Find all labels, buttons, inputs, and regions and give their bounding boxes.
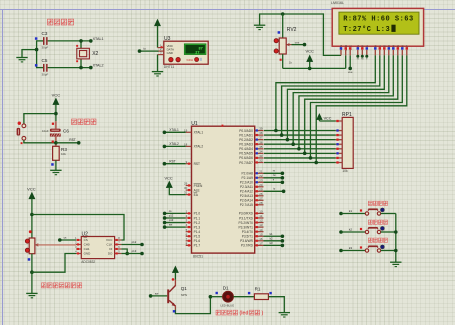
svg-text:PSEN: PSEN <box>194 184 203 188</box>
svg-text:24: 24 <box>259 183 263 187</box>
svg-text:Q1: Q1 <box>181 286 188 291</box>
svg-text:k3: k3 <box>349 246 353 250</box>
svg-text:LM016L: LM016L <box>331 1 344 5</box>
svg-text:X2: X2 <box>92 51 98 57</box>
svg-text:P2.1/A9: P2.1/A9 <box>242 176 254 180</box>
svg-text:XTAL1: XTAL1 <box>169 128 179 132</box>
svg-text:80C51: 80C51 <box>193 255 203 259</box>
svg-text:P0.3/AD3: P0.3/AD3 <box>239 143 253 147</box>
svg-text:k1: k1 <box>349 209 353 213</box>
svg-text:P0.1/AD1: P0.1/AD1 <box>239 133 253 137</box>
svg-text:26: 26 <box>259 192 263 196</box>
svg-text:P2.0/A8: P2.0/A8 <box>242 172 254 176</box>
svg-text:CH0: CH0 <box>84 243 90 247</box>
svg-text:D1: D1 <box>223 285 229 290</box>
svg-text:CS: CS <box>84 238 88 242</box>
svg-text:k1: k1 <box>270 232 273 236</box>
svg-text:P1.3: P1.3 <box>194 225 201 229</box>
svg-text:P0.5/AD5: P0.5/AD5 <box>239 152 253 156</box>
svg-text:io: io <box>144 46 147 50</box>
svg-text:sw: sw <box>169 223 173 227</box>
svg-text:10: 10 <box>259 210 263 214</box>
svg-text:VCC: VCC <box>164 175 172 180</box>
svg-text:29: 29 <box>184 182 188 186</box>
svg-text:R1: R1 <box>255 286 261 291</box>
svg-text:): ) <box>262 311 264 317</box>
svg-text:P1.7: P1.7 <box>194 244 201 248</box>
svg-text:XTAL2: XTAL2 <box>93 64 104 68</box>
svg-text:DO: DO <box>108 252 113 256</box>
svg-text:27: 27 <box>259 196 263 200</box>
svg-text:cs: cs <box>64 236 67 240</box>
svg-text:30pF: 30pF <box>42 46 49 50</box>
svg-text:11: 11 <box>259 214 262 218</box>
svg-text:vee: vee <box>295 40 300 44</box>
svg-text:cs: cs <box>169 209 172 213</box>
svg-text:10k: 10k <box>61 152 66 156</box>
svg-text:P3.7/RD: P3.7/RD <box>241 244 254 248</box>
svg-text:P0.4/AD4: P0.4/AD4 <box>239 147 253 151</box>
svg-text:ALE: ALE <box>194 188 200 192</box>
svg-text:CH1: CH1 <box>84 247 90 251</box>
svg-text:GND: GND <box>167 51 173 55</box>
svg-text:(led: (led <box>240 311 249 317</box>
svg-text:30pF: 30pF <box>42 73 49 77</box>
svg-text:P3.3/INT1: P3.3/INT1 <box>239 225 254 229</box>
svg-text:%RH: %RH <box>186 58 193 62</box>
svg-text:17: 17 <box>259 241 263 245</box>
svg-text:DHT11: DHT11 <box>164 65 175 69</box>
svg-text:P3.4/T0: P3.4/T0 <box>242 230 253 234</box>
svg-text:P2.4/A12: P2.4/A12 <box>240 190 253 194</box>
svg-text:e: e <box>366 58 368 61</box>
svg-text:35: 35 <box>259 145 263 149</box>
svg-text:RV2: RV2 <box>287 27 297 33</box>
svg-text:38: 38 <box>259 131 263 135</box>
svg-text:P3.2/INT0: P3.2/INT0 <box>239 221 254 225</box>
svg-text:VCC: VCC <box>324 117 332 121</box>
svg-text:10uF: 10uF <box>42 129 49 133</box>
svg-text:16: 16 <box>259 237 263 241</box>
svg-text:23: 23 <box>259 178 263 182</box>
svg-text:C5: C5 <box>42 58 48 63</box>
svg-text:P1.2: P1.2 <box>194 221 201 225</box>
svg-text:P3.0/RXD: P3.0/RXD <box>239 212 254 216</box>
svg-text:36: 36 <box>259 140 263 144</box>
svg-text:ADC0832: ADC0832 <box>81 260 95 264</box>
svg-text:k3: k3 <box>270 241 273 245</box>
svg-text:LED-BLUE: LED-BLUE <box>220 303 234 307</box>
svg-text:P0.2/AD2: P0.2/AD2 <box>239 138 253 142</box>
svg-text:39: 39 <box>259 127 263 131</box>
svg-text:RST: RST <box>194 162 200 166</box>
svg-text:p12: p12 <box>169 213 174 217</box>
svg-text:1k: 1k <box>289 61 293 65</box>
svg-text:21: 21 <box>259 169 263 173</box>
svg-text:22: 22 <box>259 174 263 178</box>
svg-text:25: 25 <box>259 187 263 191</box>
svg-text:P3.5/T1: P3.5/T1 <box>242 235 253 239</box>
svg-text:p13: p13 <box>169 218 174 222</box>
svg-text:27: 27 <box>195 52 199 56</box>
svg-text:14: 14 <box>259 228 263 232</box>
svg-text:10k: 10k <box>342 169 348 173</box>
svg-text:P3.6/WR: P3.6/WR <box>240 239 253 243</box>
svg-text:XTAL2: XTAL2 <box>169 142 179 146</box>
svg-text:P3.1/TXD: P3.1/TXD <box>239 216 254 220</box>
svg-text:U3: U3 <box>164 36 171 42</box>
svg-text:io: io <box>273 187 276 191</box>
svg-text:T:27°C L:3: T:27°C L:3 <box>343 25 390 34</box>
svg-text:P1.6: P1.6 <box>194 239 201 243</box>
svg-text:P1.1: P1.1 <box>194 216 201 220</box>
svg-text:C3: C3 <box>42 31 48 36</box>
svg-text:34: 34 <box>259 149 263 153</box>
svg-text:DI: DI <box>109 247 112 251</box>
svg-text:P2.3/A11: P2.3/A11 <box>240 185 253 189</box>
svg-text:E: E <box>365 45 369 47</box>
svg-text:k2: k2 <box>349 227 353 231</box>
svg-text:rs: rs <box>273 169 276 173</box>
svg-text:p12: p12 <box>132 240 137 244</box>
svg-text:RST: RST <box>69 138 76 142</box>
svg-text:P2.6/A14: P2.6/A14 <box>240 199 253 203</box>
svg-text:vee: vee <box>348 70 353 74</box>
svg-text:rw: rw <box>361 58 364 61</box>
svg-text:12: 12 <box>259 219 263 223</box>
svg-text:XTAL1: XTAL1 <box>93 37 104 41</box>
svg-text:rs: rs <box>357 58 360 61</box>
svg-text:VCC: VCC <box>106 238 113 242</box>
svg-text:P1.4: P1.4 <box>194 230 201 234</box>
svg-text:VCC: VCC <box>305 49 314 54</box>
svg-text:RST: RST <box>169 159 175 163</box>
svg-text:P2.5/A13: P2.5/A13 <box>240 194 253 198</box>
svg-text:NPN: NPN <box>181 293 187 297</box>
svg-text:32: 32 <box>259 159 263 163</box>
svg-text:C6: C6 <box>63 128 69 133</box>
svg-text:33: 33 <box>259 154 263 158</box>
svg-text:P1.5: P1.5 <box>194 235 201 239</box>
svg-text:30: 30 <box>184 186 188 190</box>
svg-text:P0.0/AD0: P0.0/AD0 <box>239 129 253 133</box>
svg-text:XTAL2: XTAL2 <box>194 145 204 149</box>
svg-text:P2.2/A10: P2.2/A10 <box>240 181 253 185</box>
svg-text:XTAL1: XTAL1 <box>194 131 204 135</box>
svg-text:GND: GND <box>84 252 92 256</box>
svg-text:28: 28 <box>259 201 263 205</box>
svg-text:k2: k2 <box>270 236 273 240</box>
svg-text:P0.7/AD7: P0.7/AD7 <box>239 161 253 165</box>
svg-text:13: 13 <box>259 223 263 227</box>
svg-text:R:87% H:60 S:63: R:87% H:60 S:63 <box>343 15 414 23</box>
svg-text:e: e <box>273 179 275 182</box>
svg-text:VCC: VCC <box>52 92 61 97</box>
svg-text:P1.0: P1.0 <box>194 212 201 216</box>
svg-text:15: 15 <box>259 232 263 236</box>
svg-text:VCC: VCC <box>27 187 36 192</box>
svg-text:P2.7/A15: P2.7/A15 <box>240 203 253 207</box>
svg-text:sw: sw <box>155 291 159 295</box>
svg-text:p13: p13 <box>132 249 137 253</box>
svg-text:37: 37 <box>259 136 263 140</box>
svg-text:rw: rw <box>273 173 276 177</box>
svg-text:CLK: CLK <box>107 243 113 247</box>
svg-text:P0.6/AD6: P0.6/AD6 <box>239 156 253 160</box>
